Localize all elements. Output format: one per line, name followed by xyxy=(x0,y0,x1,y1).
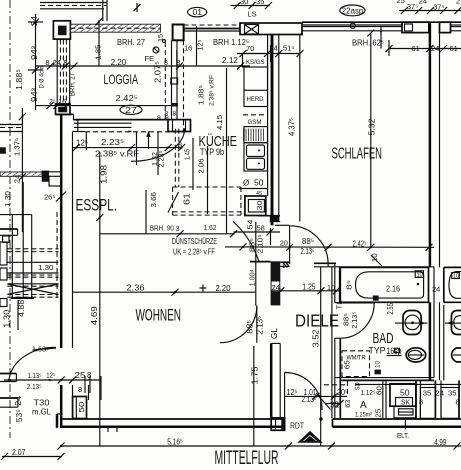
svg-text:2.06: 2.06 xyxy=(197,159,206,174)
svg-text:2.12: 2.12 xyxy=(222,55,238,65)
loggia door arc into ESSPL xyxy=(131,128,185,161)
svg-text:BRH. 62⁵: BRH. 62⁵ xyxy=(352,39,384,48)
svg-text:A: A xyxy=(360,400,367,411)
svg-text:10: 10 xyxy=(327,283,335,292)
svg-text:58: 58 xyxy=(257,224,265,233)
svg-text:8: 8 xyxy=(157,116,161,123)
RDT door jambs xyxy=(271,418,284,431)
svg-text:1.45: 1.45 xyxy=(185,149,192,160)
svg-text:54: 54 xyxy=(246,220,255,230)
top dim tick small xyxy=(136,3,138,12)
svg-text:GL: GL xyxy=(270,327,279,339)
kitchen window band xyxy=(184,24,241,26)
svg-text:25: 25 xyxy=(397,0,405,5)
WOHNEN dim row xyxy=(73,291,256,293)
svg-text:BRH. 90: BRH. 90 xyxy=(150,224,174,233)
svg-text:25: 25 xyxy=(374,409,383,418)
svg-text:10: 10 xyxy=(417,273,423,279)
svg-text:Ø: Ø xyxy=(243,179,249,188)
svg-text:KS/GS: KS/GS xyxy=(246,59,265,66)
dim row 54 58 kitchen door xyxy=(234,231,281,233)
svg-text:24: 24 xyxy=(436,389,445,398)
svg-text:1.62: 1.62 xyxy=(204,223,217,232)
neighbour basin xyxy=(451,311,461,335)
loggia floor edge / window band to ESSPL xyxy=(74,119,168,121)
svg-text:65: 65 xyxy=(345,360,352,369)
neighbour loggia rail band xyxy=(0,172,42,176)
BAD south wall xyxy=(335,377,434,379)
bathtub xyxy=(340,267,429,302)
LS box with X xyxy=(245,25,259,35)
neighbour wc xyxy=(452,348,461,362)
svg-text:1.88⁵: 1.88⁵ xyxy=(197,85,206,105)
fire door arc outside xyxy=(9,347,56,382)
loggia corner column xyxy=(53,21,70,39)
shaft dashed line xyxy=(347,381,349,396)
top dim row above LS xyxy=(230,5,269,7)
bottom dim line xyxy=(61,445,461,447)
svg-text:60: 60 xyxy=(375,386,384,395)
west wall of ESSPL/WOHNEN xyxy=(60,114,63,348)
svg-text:27: 27 xyxy=(125,106,138,115)
svg-text:20: 20 xyxy=(280,238,288,247)
svg-text:1.12⁵: 1.12⁵ xyxy=(361,388,376,397)
svg-text:94³: 94³ xyxy=(30,46,39,60)
svg-text:25: 25 xyxy=(75,370,86,380)
kitchen wall bottom cap xyxy=(258,215,280,217)
WOHNEN-DIELE wall black upper xyxy=(250,261,271,263)
svg-text:30: 30 xyxy=(255,201,264,211)
svg-text:26⁵: 26⁵ xyxy=(44,193,55,202)
svg-text:m.GL: m.GL xyxy=(32,407,51,417)
svg-text:2.38⁵ v.RF: 2.38⁵ v.RF xyxy=(95,149,139,159)
svg-text:2.23⁵: 2.23⁵ xyxy=(101,137,124,147)
svg-text:16: 16 xyxy=(58,97,66,106)
stair void cross xyxy=(7,284,58,295)
svg-text:1.25: 1.25 xyxy=(303,282,316,291)
kitchen east wall xyxy=(267,35,269,197)
kitchen east wall faces xyxy=(278,35,280,216)
DIELE witness lines xyxy=(320,267,322,446)
svg-text:10: 10 xyxy=(376,360,382,368)
LS shaft slab xyxy=(240,23,302,35)
svg-text:88⁵: 88⁵ xyxy=(246,320,255,334)
svg-text:30: 30 xyxy=(240,0,248,6)
svg-text:8: 8 xyxy=(419,398,423,407)
svg-text:24: 24 xyxy=(419,0,427,5)
svg-text:2.55: 2.55 xyxy=(386,303,395,315)
svg-text:8: 8 xyxy=(173,111,177,118)
dashed overhang above ESSPL xyxy=(85,131,185,133)
dim 61 24 61 xyxy=(389,48,461,50)
WOHNEN-DIELE wall lower xyxy=(270,343,273,418)
svg-text:2.07⁵: 2.07⁵ xyxy=(154,61,163,83)
30 vent box xyxy=(245,196,266,216)
svg-text:16sp: 16sp xyxy=(387,346,402,356)
svg-text:UK = 2.28⁵ v.FF: UK = 2.28⁵ v.FF xyxy=(173,248,215,257)
DIELE-BAD wall xyxy=(334,264,336,303)
svg-text:8: 8 xyxy=(456,398,460,407)
svg-text:3.52: 3.52 xyxy=(311,329,321,347)
BRH 90 dim row xyxy=(100,233,234,235)
svg-text:8: 8 xyxy=(164,60,168,67)
WC xyxy=(406,348,426,362)
svg-text:BRH. 27: BRH. 27 xyxy=(117,38,146,47)
left neighbour wall fragments xyxy=(0,124,22,126)
svg-text:TYP: TYP xyxy=(369,346,386,356)
svg-text:2.13⁵: 2.13⁵ xyxy=(301,247,315,256)
dim row y66 (8 24 8 / 2.20) xyxy=(36,65,161,67)
ELT leader xyxy=(404,418,406,430)
svg-text:2.10⁵: 2.10⁵ xyxy=(256,234,265,253)
svg-text:SCHLAFEN: SCHLAFEN xyxy=(332,146,383,163)
svg-text:ELT.: ELT. xyxy=(397,431,409,440)
svg-text:8: 8 xyxy=(178,141,182,150)
property boundary dash-dot line left xyxy=(9,0,11,438)
double sink xyxy=(244,143,268,171)
svg-text:3: 3 xyxy=(176,224,180,233)
svg-text:GSM: GSM xyxy=(248,119,262,126)
svg-text:1.13⁵: 1.13⁵ xyxy=(28,371,42,380)
drainer xyxy=(244,127,268,143)
svg-text:20⁵: 20⁵ xyxy=(337,388,348,397)
schlafen north wall window band xyxy=(302,21,461,23)
door hinge block xyxy=(373,296,379,301)
BAD door leaf + arc xyxy=(341,302,375,304)
svg-text:SK: SK xyxy=(401,400,410,407)
door stop black xyxy=(375,370,381,375)
svg-text:61: 61 xyxy=(450,44,458,53)
niche in WOHNEN bottom left xyxy=(73,397,87,419)
schlafen door dim row xyxy=(225,246,434,248)
schlafen door leaf + arc xyxy=(289,225,291,264)
neighbour loggia rail top-left xyxy=(40,2,107,4)
svg-text:MITTELFLUR: MITTELFLUR xyxy=(215,448,279,469)
svg-text:16: 16 xyxy=(184,44,192,53)
svg-text:12⁵: 12⁵ xyxy=(46,371,55,380)
svg-text:2.36: 2.36 xyxy=(127,283,145,293)
witness line 12.5 xyxy=(85,132,87,151)
svg-text:94³: 94³ xyxy=(30,88,39,102)
svg-text:LOGGIA: LOGGIA xyxy=(104,72,139,87)
svg-text:2.13⁵: 2.13⁵ xyxy=(27,382,42,391)
svg-text:24: 24 xyxy=(431,44,439,53)
1.85 vertical dim in loggia xyxy=(98,21,100,67)
wash basin xyxy=(403,311,421,335)
left wall stubs bottom xyxy=(0,373,16,375)
svg-text:10: 10 xyxy=(282,264,289,270)
svg-text:24: 24 xyxy=(432,285,440,294)
DIELE dim row 24 1.25 10 xyxy=(271,290,340,292)
west wall bottom outer step xyxy=(56,414,59,428)
svg-text:15: 15 xyxy=(159,33,165,42)
diagonal mark xyxy=(168,192,179,213)
DIELE north wall right segment xyxy=(314,262,336,264)
loggia west railing xyxy=(57,40,69,105)
svg-text:01: 01 xyxy=(193,8,203,17)
svg-text:53⁵: 53⁵ xyxy=(15,409,24,422)
svg-text:1.30: 1.30 xyxy=(3,309,12,328)
vertical witness line through ESSPL/WOHNEN xyxy=(99,152,101,446)
dim row 70 24 51 xyxy=(237,53,299,55)
svg-text:LS: LS xyxy=(248,10,257,19)
svg-text:4.15: 4.15 xyxy=(215,115,224,130)
svg-text:WOHNEN: WOHNEN xyxy=(136,307,182,325)
pier block loggia SE xyxy=(168,120,191,132)
ESSPL-KUCHE dashed divider xyxy=(174,129,176,187)
WM/TR dashed box xyxy=(342,351,370,377)
wall top step xyxy=(57,113,74,115)
svg-text:8: 8 xyxy=(165,111,169,118)
HERD unit xyxy=(244,90,268,106)
svg-text:35: 35 xyxy=(256,0,264,6)
south wall xyxy=(61,418,284,420)
svg-text:HERD: HERD xyxy=(247,96,264,103)
svg-text:1.88⁵: 1.88⁵ xyxy=(14,69,24,90)
svg-text:1.85: 1.85 xyxy=(93,45,102,60)
svg-text:2.28⁵: 2.28⁵ xyxy=(157,151,166,168)
svg-text:BRH. 27: BRH. 27 xyxy=(68,73,77,96)
svg-text:4.37⁵: 4.37⁵ xyxy=(288,118,297,136)
svg-text:2.42⁵: 2.42⁵ xyxy=(116,94,138,103)
party wall lower continuation xyxy=(429,302,432,380)
svg-text:5.16⁵: 5.16⁵ xyxy=(167,438,183,447)
ellipse 22asp xyxy=(340,5,365,16)
svg-text:2.13⁵: 2.13⁵ xyxy=(350,312,359,329)
svg-text:8: 8 xyxy=(78,385,82,394)
svg-text:35: 35 xyxy=(448,389,457,398)
kitchen counter units xyxy=(243,54,268,68)
svg-text:12⁵: 12⁵ xyxy=(76,139,88,148)
svg-text:50: 50 xyxy=(77,402,86,413)
svg-text:1.00⁴: 1.00⁴ xyxy=(248,269,257,286)
svg-text:35: 35 xyxy=(423,389,432,398)
kitchen door arc xyxy=(233,222,259,262)
svg-text:BRH 1.12⁵: BRH 1.12⁵ xyxy=(213,38,249,47)
svg-text:8: 8 xyxy=(46,60,50,67)
stair zone xyxy=(56,212,58,300)
ellipse 27 xyxy=(120,105,142,114)
svg-text:BAD: BAD xyxy=(373,330,394,347)
svg-text:37⁵: 37⁵ xyxy=(433,3,444,12)
svg-text:61: 61 xyxy=(412,44,420,53)
party wall 24 label xyxy=(432,284,442,294)
svg-text:63: 63 xyxy=(343,400,352,408)
svg-text:37⁵: 37⁵ xyxy=(407,2,418,11)
svg-text:50: 50 xyxy=(400,389,410,398)
loggia west railing base column xyxy=(56,104,71,115)
ellipse 01 xyxy=(188,7,207,16)
svg-text:5.32: 5.32 xyxy=(367,118,377,135)
FE symbol xyxy=(153,47,159,53)
svg-text:DUNSTSCHÜRZE: DUNSTSCHÜRZE xyxy=(172,237,217,246)
svg-text:2: 2 xyxy=(456,0,460,5)
svg-text:1.25m²: 1.25m² xyxy=(355,412,373,419)
party wall top xyxy=(429,22,432,267)
svg-text:ESSPL.: ESSPL. xyxy=(76,196,118,215)
svg-text:3.66: 3.66 xyxy=(149,192,158,208)
loggia east wall xyxy=(171,40,173,119)
lower-left dim line xyxy=(2,456,62,458)
svg-text:1.30: 1.30 xyxy=(38,263,54,272)
svg-text:50: 50 xyxy=(254,178,264,188)
dim row 1.13 12 / 25 8 at fire door xyxy=(4,379,101,381)
svg-text:51⁵: 51⁵ xyxy=(283,44,294,53)
svg-text:2.07: 2.07 xyxy=(12,448,26,457)
svg-text:12⁵: 12⁵ xyxy=(287,388,298,397)
svg-text:22asp: 22asp xyxy=(342,6,364,15)
svg-text:4.69: 4.69 xyxy=(89,306,99,325)
svg-text:10: 10 xyxy=(453,274,459,280)
RDT entry door arc xyxy=(284,373,286,418)
loggia bottom dim row y105.6 xyxy=(36,105,173,107)
top right dim row xyxy=(399,10,461,12)
svg-text:88⁵: 88⁵ xyxy=(302,237,314,246)
ESSPL top dim row xyxy=(73,147,181,149)
stair flight dashed treads xyxy=(7,248,58,250)
svg-text:2.20: 2.20 xyxy=(216,283,231,293)
svg-text:TYP 9b: TYP 9b xyxy=(200,147,224,158)
neighbour pier and window xyxy=(440,22,451,32)
kitchen north window pier xyxy=(173,25,184,41)
svg-text:24: 24 xyxy=(30,15,39,26)
entry triangle xyxy=(297,431,322,443)
svg-text:4.99: 4.99 xyxy=(434,438,446,447)
shaft zone bottom xyxy=(355,383,461,385)
svg-text:2.13⁵: 2.13⁵ xyxy=(256,316,265,335)
DIELE north wall stub left xyxy=(280,261,289,263)
svg-text:8⁵: 8⁵ xyxy=(347,280,354,290)
svg-text:1.75: 1.75 xyxy=(251,366,260,385)
svg-text:70: 70 xyxy=(246,44,254,53)
svg-text:2.16: 2.16 xyxy=(386,285,400,294)
svg-text:24: 24 xyxy=(14,395,23,406)
left dimension witness line xyxy=(35,14,37,110)
loggia north railing hatched xyxy=(70,24,160,32)
dunstschurze dashed box xyxy=(172,187,174,215)
svg-text:61: 61 xyxy=(183,192,192,205)
svg-text:2.20: 2.20 xyxy=(111,57,127,67)
schlafen window pier right xyxy=(402,22,429,32)
svg-text:1.37⁵: 1.37⁵ xyxy=(13,138,22,156)
WOHNEN door leaf + arc xyxy=(256,306,258,343)
svg-text:2.42⁵: 2.42⁵ xyxy=(353,240,367,249)
neighbour bathtub right xyxy=(444,266,461,268)
svg-text:1.30: 1.30 xyxy=(3,191,12,207)
svg-text:2.38⁵ v.RF: 2.38⁵ v.RF xyxy=(209,75,216,106)
svg-text:RDT: RDT xyxy=(290,421,304,430)
